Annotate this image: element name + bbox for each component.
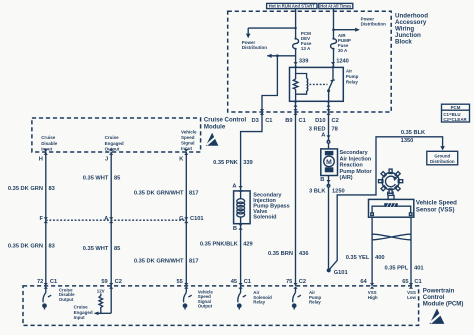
- svg-text:D10: D10: [315, 118, 325, 124]
- svg-text:817: 817: [189, 191, 199, 197]
- svg-text:Block: Block: [395, 39, 412, 46]
- svg-text:Relay: Relay: [309, 300, 321, 305]
- svg-text:436: 436: [299, 251, 309, 257]
- svg-text:Relay: Relay: [253, 300, 265, 305]
- svg-text:30 A: 30 A: [338, 48, 348, 53]
- svg-text:0.35 DK GRN/WHT: 0.35 DK GRN/WHT: [134, 259, 184, 265]
- svg-text:0.35 WHT: 0.35 WHT: [83, 176, 109, 182]
- svg-text:C1: C1: [414, 279, 421, 285]
- svg-text:45: 45: [231, 279, 237, 285]
- svg-text:817: 817: [189, 259, 199, 265]
- svg-text:339: 339: [299, 59, 309, 65]
- svg-text:G: G: [179, 216, 184, 222]
- svg-text:1250: 1250: [332, 189, 345, 195]
- svg-text:C1: C1: [299, 118, 306, 124]
- svg-text:Output: Output: [105, 146, 120, 151]
- svg-text:12V: 12V: [97, 289, 105, 294]
- svg-text:0.35 DK GRN: 0.35 DK GRN: [8, 186, 43, 192]
- svg-text:C101: C101: [190, 216, 204, 222]
- svg-text:Input: Input: [41, 146, 52, 151]
- svg-text:0.35 YEL: 0.35 YEL: [346, 255, 370, 261]
- svg-text:Hot At All Times: Hot At All Times: [320, 4, 352, 9]
- svg-text:13 A: 13 A: [301, 46, 311, 51]
- svg-text:Input: Input: [74, 315, 85, 320]
- svg-text:64: 64: [360, 279, 367, 285]
- svg-text:C2: C2: [299, 279, 306, 285]
- svg-text:B9: B9: [285, 118, 292, 124]
- svg-text:429: 429: [243, 242, 253, 248]
- svg-text:59: 59: [101, 279, 107, 285]
- svg-text:Relay: Relay: [346, 80, 359, 85]
- svg-text:85: 85: [114, 176, 120, 182]
- svg-text:Module: Module: [204, 123, 226, 130]
- svg-text:55: 55: [176, 279, 182, 285]
- svg-text:C2: C2: [115, 279, 122, 285]
- svg-text:(AIR): (AIR): [340, 175, 353, 181]
- svg-text:0.35 DK GRN/WHT: 0.35 DK GRN/WHT: [134, 191, 184, 197]
- svg-text:Sensor (VSS): Sensor (VSS): [416, 207, 455, 214]
- svg-text:Secondary: Secondary: [340, 150, 369, 156]
- svg-text:H: H: [39, 156, 43, 162]
- svg-text:High: High: [368, 295, 378, 300]
- svg-text:1240: 1240: [336, 59, 349, 65]
- svg-text:Distribution: Distribution: [361, 22, 386, 27]
- svg-text:401: 401: [414, 266, 424, 272]
- svg-text:C2: C2: [332, 118, 339, 124]
- svg-text:A: A: [321, 133, 325, 139]
- svg-text:Engaged: Engaged: [105, 141, 124, 146]
- svg-text:83: 83: [49, 186, 55, 192]
- svg-text:0.35 PNK/BLK: 0.35 PNK/BLK: [200, 242, 239, 248]
- svg-text:400: 400: [375, 255, 385, 261]
- svg-text:Low: Low: [407, 295, 416, 300]
- svg-text:C1: C1: [244, 279, 251, 285]
- svg-text:0.35 PNK: 0.35 PNK: [213, 160, 239, 166]
- svg-text:Signal: Signal: [181, 140, 195, 145]
- svg-text:Air Injection: Air Injection: [340, 156, 372, 162]
- svg-text:Distribution: Distribution: [430, 159, 455, 164]
- svg-text:78: 78: [332, 127, 338, 133]
- svg-text:Output: Output: [59, 297, 74, 302]
- svg-text:C1: C1: [265, 118, 272, 124]
- svg-text:0.35 PPL: 0.35 PPL: [384, 266, 408, 272]
- svg-text:Speed: Speed: [181, 135, 195, 140]
- svg-text:Ground: Ground: [434, 154, 450, 159]
- svg-text:J: J: [105, 156, 108, 162]
- svg-text:A: A: [232, 183, 236, 189]
- svg-text:F: F: [40, 216, 44, 222]
- svg-text:Cruise: Cruise: [74, 305, 89, 310]
- svg-text:A: A: [104, 216, 108, 222]
- svg-text:65: 65: [402, 279, 408, 285]
- svg-text:Cruise: Cruise: [41, 135, 56, 140]
- svg-text:72: 72: [37, 279, 43, 285]
- svg-text:3 BLK: 3 BLK: [309, 189, 326, 195]
- svg-text:Pump Motor: Pump Motor: [340, 169, 373, 175]
- svg-text:B: B: [320, 177, 324, 183]
- svg-text:Output: Output: [198, 303, 213, 308]
- svg-text:D3: D3: [252, 118, 259, 124]
- svg-text:Hot In RUN And START: Hot In RUN And START: [269, 4, 315, 9]
- svg-text:0.35 BLK: 0.35 BLK: [401, 130, 426, 136]
- svg-text:C1: C1: [50, 279, 57, 285]
- svg-text:0.35 DK GRN: 0.35 DK GRN: [8, 244, 43, 250]
- svg-text:339: 339: [243, 160, 253, 166]
- svg-text:Reaction: Reaction: [340, 163, 364, 169]
- svg-text:PCM: PCM: [451, 105, 461, 110]
- svg-text:Vehicle: Vehicle: [181, 129, 197, 134]
- svg-text:0.35 WHT: 0.35 WHT: [83, 246, 109, 252]
- svg-text:83: 83: [49, 244, 55, 250]
- svg-text:Vehicle Speed: Vehicle Speed: [416, 200, 457, 207]
- svg-text:Cruise: Cruise: [105, 135, 120, 140]
- svg-text:C2=CLEAR: C2=CLEAR: [443, 117, 467, 122]
- svg-text:G101: G101: [334, 270, 348, 276]
- svg-text:0.35 BRN: 0.35 BRN: [268, 251, 293, 257]
- svg-text:Air: Air: [346, 69, 353, 74]
- svg-text:75: 75: [286, 279, 292, 285]
- svg-text:Solenoid: Solenoid: [253, 215, 276, 221]
- svg-text:Pump: Pump: [346, 74, 359, 79]
- svg-text:Disable: Disable: [41, 141, 58, 146]
- svg-text:M: M: [326, 159, 332, 166]
- svg-text:Module (PCM): Module (PCM): [423, 300, 464, 307]
- svg-text:1350: 1350: [401, 138, 414, 144]
- svg-text:Distribution: Distribution: [242, 45, 267, 50]
- svg-text:B: B: [233, 226, 237, 232]
- svg-text:85: 85: [114, 246, 120, 252]
